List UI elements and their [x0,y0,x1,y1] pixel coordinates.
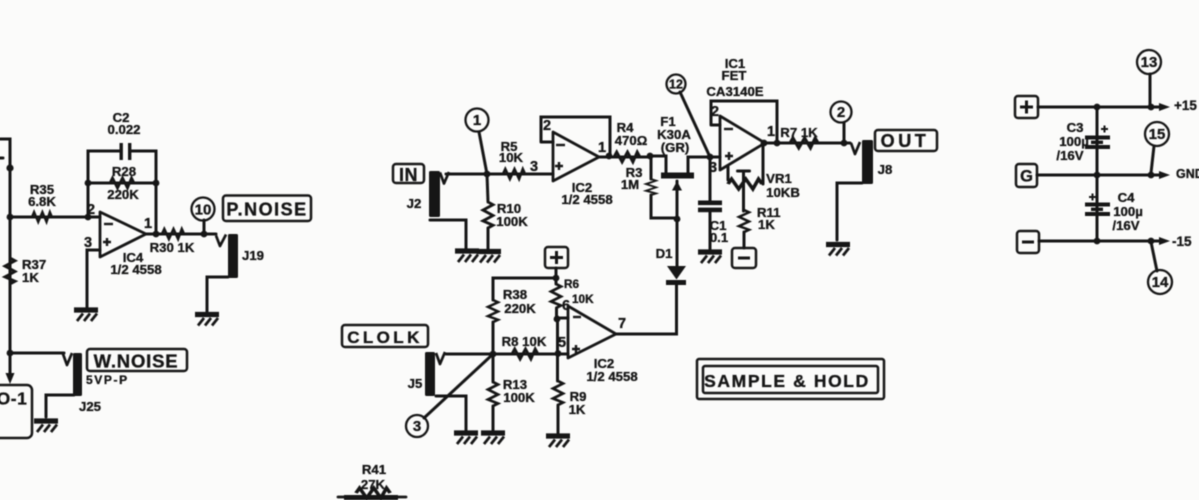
svg-text:0.1: 0.1 [710,230,728,245]
svg-text:R41: R41 [362,462,386,477]
svg-text:1: 1 [473,112,481,129]
svg-text:1: 1 [598,140,606,156]
svg-text:G: G [1020,168,1033,186]
svg-text:VR1: VR1 [766,171,792,186]
svg-text:/16V: /16V [1056,148,1083,163]
svg-text:2: 2 [87,202,95,218]
svg-text:CA3140E: CA3140E [706,84,763,99]
svg-text:2: 2 [543,118,551,134]
svg-text:P.NOISE: P.NOISE [226,200,307,220]
svg-text:R28: R28 [112,164,136,179]
svg-text:R38: R38 [503,287,527,302]
svg-text:1/2 4558: 1/2 4558 [110,262,161,277]
svg-text:10KB: 10KB [766,185,800,200]
svg-text:W.NOISE: W.NOISE [94,351,179,372]
svg-text:R8 10K: R8 10K [502,334,547,349]
svg-text:J8: J8 [878,162,893,177]
svg-text:100µ: 100µ [1113,204,1143,219]
svg-text:470Ω: 470Ω [615,133,648,148]
svg-text:1: 1 [767,124,775,140]
svg-text:SAMPLE & HOLD: SAMPLE & HOLD [704,371,870,391]
svg-text:0.022: 0.022 [107,122,140,137]
svg-text:3: 3 [84,235,92,251]
svg-text:IN: IN [399,165,418,185]
svg-text:5VP-P: 5VP-P [86,373,129,387]
svg-text:2: 2 [711,104,719,120]
svg-text:D1: D1 [656,246,673,261]
svg-text:10K: 10K [572,292,594,306]
svg-text:(GR): (GR) [661,140,690,155]
svg-text:7: 7 [618,316,626,332]
svg-text:12: 12 [669,78,683,92]
svg-text:15: 15 [1149,126,1166,143]
svg-text:J2: J2 [407,196,422,211]
svg-text:100µ: 100µ [1059,134,1089,149]
svg-text:220K: 220K [504,301,536,316]
svg-text:R6: R6 [564,277,580,291]
svg-text:6.8K: 6.8K [28,194,56,209]
svg-text:J5: J5 [408,376,423,391]
svg-text:C3: C3 [1067,120,1084,135]
svg-text:1K: 1K [758,217,775,232]
svg-text:220K: 220K [107,187,139,202]
svg-text:CLOLK: CLOLK [347,328,423,347]
svg-text:1M: 1M [621,177,639,192]
svg-text:J25: J25 [79,399,101,414]
svg-text:3: 3 [413,418,421,435]
svg-text:3: 3 [530,159,538,175]
svg-text:1/2 4558: 1/2 4558 [561,192,612,207]
svg-text:C4: C4 [1118,190,1136,205]
svg-text:100K: 100K [496,214,528,229]
svg-text:3: 3 [709,160,717,176]
svg-text:-15: -15 [1172,234,1192,249]
svg-text:27K: 27K [361,477,386,492]
svg-text:10: 10 [195,202,212,219]
svg-text:FET: FET [722,68,747,83]
svg-text:GND: GND [1176,167,1199,181]
svg-text:R7 1K: R7 1K [780,125,818,140]
svg-text:J19: J19 [242,248,264,263]
svg-text:1/2 4558: 1/2 4558 [586,369,637,384]
svg-text:14: 14 [1152,274,1169,291]
svg-text:1K: 1K [569,402,586,417]
svg-text:2: 2 [837,104,845,121]
svg-text:/16V: /16V [1112,218,1139,233]
svg-text:13: 13 [1141,54,1158,71]
svg-text:R30 1K: R30 1K [150,240,195,255]
svg-text:OUT: OUT [881,131,930,151]
svg-text:O-1: O-1 [0,389,27,409]
svg-text:10K: 10K [499,150,524,165]
svg-text:5: 5 [558,335,566,351]
svg-text:1: 1 [144,216,152,232]
svg-text:1K: 1K [22,270,39,285]
svg-text:100K: 100K [503,390,535,405]
svg-text:6: 6 [562,298,570,314]
svg-text:+15: +15 [1174,98,1197,113]
